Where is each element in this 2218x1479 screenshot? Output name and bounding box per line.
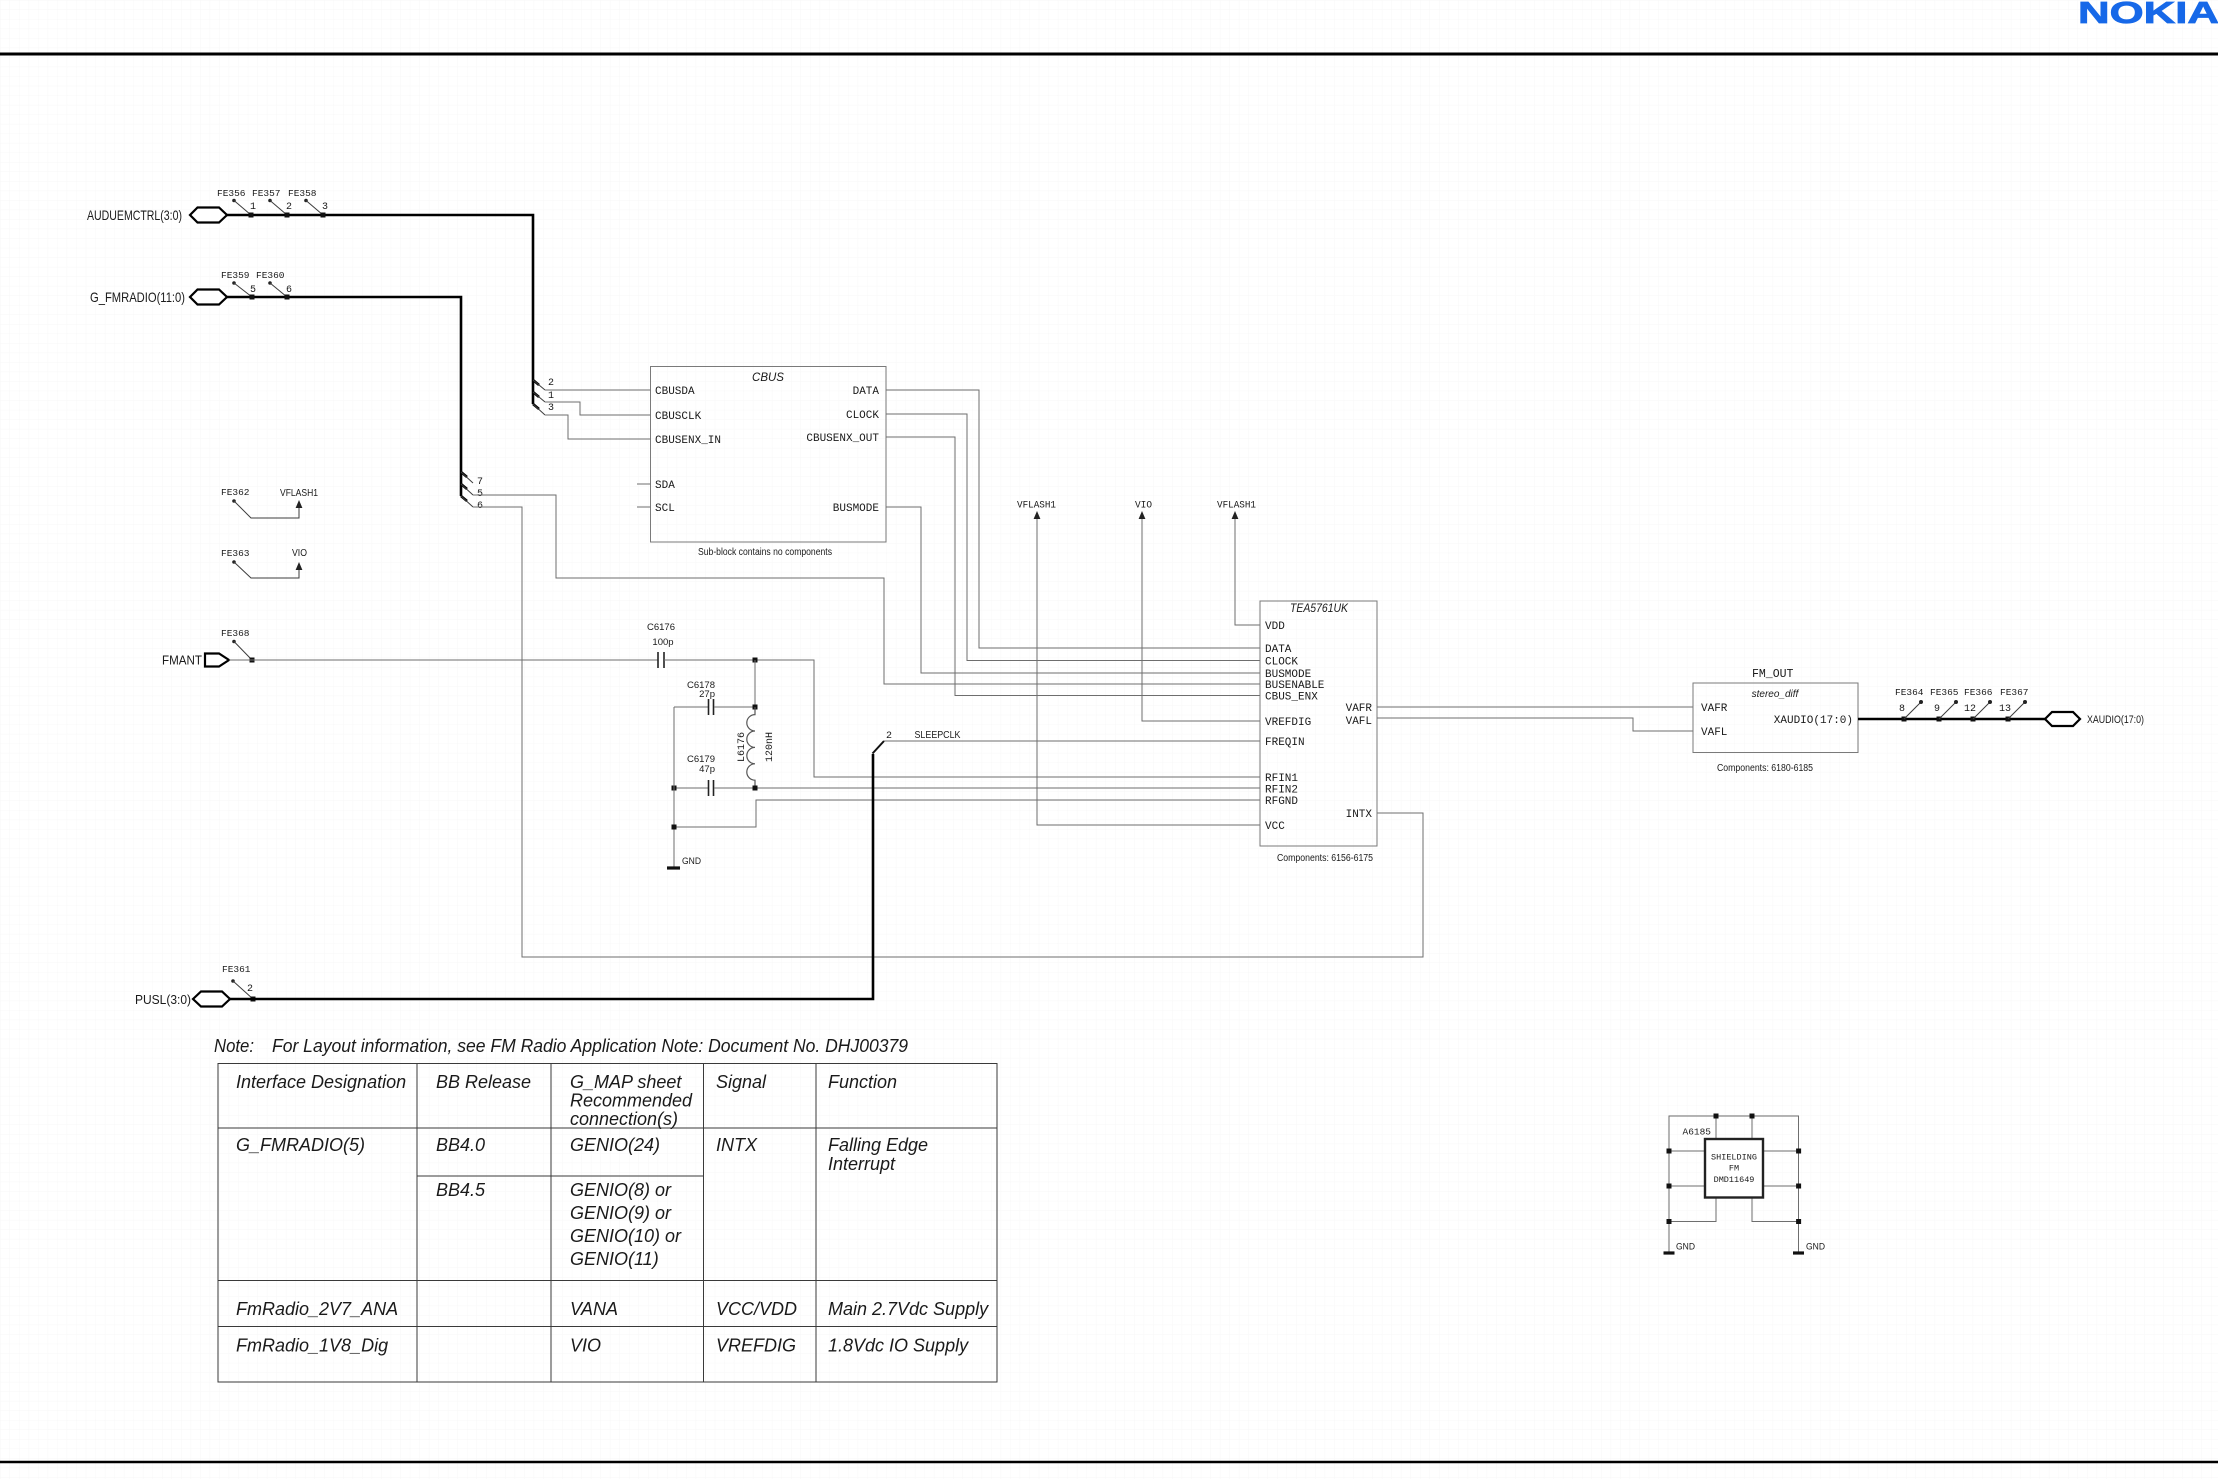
svg-text:SHIELDING: SHIELDING [1711,1153,1757,1163]
svg-text:DMD11649: DMD11649 [1714,1175,1755,1185]
svg-text:connection(s): connection(s) [570,1109,678,1129]
svg-text:VAFL: VAFL [1701,727,1727,739]
svg-text:27p: 27p [699,689,715,700]
svg-text:SCL: SCL [655,503,675,515]
svg-text:G_FMRADIO(5): G_FMRADIO(5) [236,1135,365,1155]
bus XAUDIO [1858,718,2045,721]
wire BUSMODE [886,507,1260,673]
svg-text:Components: 6156-6175: Components: 6156-6175 [1277,853,1373,864]
bus G_FMRADIO [227,297,461,496]
svg-text:1: 1 [548,391,554,402]
svg-text:INTX: INTX [716,1135,758,1155]
bottom horizontal rule [0,1461,2218,1464]
wire tap2 to CBUSDA [533,380,545,390]
svg-text:CLOCK: CLOCK [846,410,879,422]
svg-text:VFLASH1: VFLASH1 [1217,501,1256,512]
svg-text:RFIN2: RFIN2 [1265,785,1298,797]
svg-text:FE356: FE356 [217,188,246,199]
svg-text:For Layout information, see FM: For Layout information, see FM Radio App… [272,1036,908,1056]
svg-text:GND: GND [1676,1242,1695,1253]
svg-text:CBUSCLK: CBUSCLK [655,411,702,423]
bus tap 5 / wire to BUSENABLE [461,484,473,495]
svg-text:SDA: SDA [655,480,675,492]
svg-text:120nH: 120nH [765,732,776,762]
block CBUS [651,367,886,543]
svg-text:FE358: FE358 [288,188,317,199]
svg-text:VDD: VDD [1265,621,1285,633]
svg-text:2: 2 [286,202,292,213]
svg-text:FE367: FE367 [2000,687,2029,698]
svg-text:12: 12 [1964,704,1976,715]
table frame [218,1064,997,1383]
wire SLEEPCLK to FREQIN [884,740,1260,742]
wire C6176 to RFIN1 [664,660,1260,777]
svg-text:FE362: FE362 [221,487,250,498]
svg-text:FE363: FE363 [221,548,250,559]
svg-text:CBUS: CBUS [752,372,784,384]
svg-text:FE361: FE361 [222,964,251,975]
svg-text:5: 5 [250,285,256,296]
svg-text:VAFR: VAFR [1346,703,1373,715]
svg-text:VCC: VCC [1265,821,1285,833]
svg-text:FE364: FE364 [1895,687,1924,698]
bus AUDUEMCTRL [227,215,533,404]
wire CLOCK [886,414,1260,661]
svg-text:FMANT: FMANT [162,654,202,668]
bus tap 2 SLEEPCLK [873,741,885,754]
svg-text:GND: GND [1806,1242,1825,1253]
svg-text:AUDUEMCTRL(3:0): AUDUEMCTRL(3:0) [87,207,182,223]
svg-text:Recommended: Recommended [570,1091,693,1111]
svg-text:FE368: FE368 [221,628,250,639]
svg-text:FmRadio_1V8_Dig: FmRadio_1V8_Dig [236,1336,388,1356]
svg-text:Note:: Note: [214,1036,254,1056]
svg-text:2: 2 [886,731,892,742]
svg-text:VCC/VDD: VCC/VDD [716,1299,797,1319]
svg-text:2: 2 [247,984,253,995]
svg-text:Sub-block contains no componen: Sub-block contains no components [698,547,832,558]
wire CBUSENX_OUT to CBUS_ENX [886,437,1260,696]
svg-text:VAFR: VAFR [1701,703,1728,715]
svg-text:CBUSENX_IN: CBUSENX_IN [655,435,721,447]
svg-text:Interface Designation: Interface Designation [236,1072,406,1092]
svg-text:FE357: FE357 [252,188,281,199]
ground GND left [1664,1251,1675,1254]
svg-text:VFLASH1: VFLASH1 [1017,501,1056,512]
svg-text:CBUSENX_OUT: CBUSENX_OUT [806,433,879,445]
svg-text:G_FMRADIO(11:0): G_FMRADIO(11:0) [90,289,185,305]
svg-text:GENIO(9) or: GENIO(9) or [570,1203,672,1223]
svg-text:VIO: VIO [570,1336,601,1356]
svg-text:BB4.0: BB4.0 [436,1135,485,1155]
wire VAFR [1377,706,1693,708]
svg-text:FmRadio_2V7_ANA: FmRadio_2V7_ANA [236,1299,398,1319]
svg-text:SLEEPCLK: SLEEPCLK [915,730,961,741]
svg-text:2: 2 [548,378,554,389]
bus tap 7 [461,472,473,483]
IC TEA5761UK [1260,601,1377,846]
svg-text:8: 8 [1899,704,1905,715]
wire RFGND [674,800,1260,827]
svg-text:FE365: FE365 [1930,687,1959,698]
svg-text:3: 3 [322,202,328,213]
svg-text:Components: 6180-6185: Components: 6180-6185 [1717,763,1813,774]
svg-text:BUSMODE: BUSMODE [833,503,880,515]
svg-text:BB4.5: BB4.5 [436,1180,486,1200]
inductor L6176 120nH [747,707,755,788]
wire VAFL [1377,718,1693,731]
svg-text:INTX: INTX [1346,809,1373,821]
svg-text:VIO: VIO [1135,501,1152,512]
svg-text:FM: FM [1729,1164,1739,1174]
svg-text:NOKIA: NOKIA [2078,0,2218,30]
svg-text:DATA: DATA [853,386,880,398]
svg-text:C6176: C6176 [647,622,675,633]
svg-text:VFLASH1: VFLASH1 [280,488,318,499]
svg-text:CLOCK: CLOCK [1265,657,1298,669]
svg-text:3: 3 [548,403,554,414]
svg-text:G_MAP sheet: G_MAP sheet [570,1072,682,1092]
svg-text:Signal: Signal [716,1072,767,1092]
shield outer wires [1669,1116,1799,1253]
svg-text:VANA: VANA [570,1299,618,1319]
wire tap3 to CBUSENX_IN [533,404,545,415]
svg-text:L6176: L6176 [737,732,748,762]
svg-text:47p: 47p [699,764,715,775]
svg-text:XAUDIO(17:0): XAUDIO(17:0) [2087,714,2144,726]
bus PUSL [230,754,873,999]
svg-text:Falling Edge: Falling Edge [828,1135,928,1155]
wire node join [754,660,756,707]
svg-text:GENIO(11): GENIO(11) [570,1249,659,1269]
svg-text:1.8Vdc IO Supply: 1.8Vdc IO Supply [828,1336,969,1356]
svg-text:GENIO(24): GENIO(24) [570,1135,660,1155]
svg-text:6: 6 [286,285,292,296]
svg-text:Main 2.7Vdc Supply: Main 2.7Vdc Supply [828,1299,989,1319]
svg-text:100p: 100p [652,637,673,648]
svg-text:7: 7 [477,477,483,488]
ground GND right [1793,1251,1804,1254]
svg-text:9: 9 [1934,704,1940,715]
svg-text:GENIO(8) or: GENIO(8) or [570,1180,672,1200]
svg-text:DATA: DATA [1265,644,1292,656]
wire tap1 to CBUSCLK [533,392,545,402]
svg-text:CBUSDA: CBUSDA [655,386,695,398]
wire left shunt leg [673,707,675,868]
ground GND [667,866,680,869]
svg-text:TEA5761UK: TEA5761UK [1290,603,1349,615]
wire DATA [886,390,1260,648]
wire FMANT to C6176 [229,659,658,661]
svg-text:RFGND: RFGND [1265,796,1298,808]
svg-text:PUSL(3:0): PUSL(3:0) [135,992,191,1007]
shield box SHIELDING FM DMD11649 [1705,1139,1763,1198]
svg-text:Function: Function [828,1072,897,1092]
svg-text:VIO: VIO [292,548,307,559]
svg-text:RFIN1: RFIN1 [1265,773,1298,785]
svg-text:13: 13 [1999,704,2011,715]
svg-text:FREQIN: FREQIN [1265,737,1305,749]
svg-text:VREFDIG: VREFDIG [716,1336,796,1356]
svg-text:BB Release: BB Release [436,1072,531,1092]
bus tap 6 / wire to INTX [461,496,473,507]
svg-text:GND: GND [682,856,701,867]
port XAUDIO(17:0) [2045,712,2080,726]
table text [236,1072,989,1356]
svg-text:CBUS_ENX: CBUS_ENX [1265,692,1318,704]
svg-text:FM_OUT: FM_OUT [1752,668,1794,681]
svg-text:BUSENABLE: BUSENABLE [1265,680,1325,692]
svg-text:Interrupt: Interrupt [828,1154,896,1174]
svg-text:VAFL: VAFL [1346,716,1372,728]
svg-text:XAUDIO(17:0): XAUDIO(17:0) [1774,715,1853,727]
svg-text:VREFDIG: VREFDIG [1265,717,1311,729]
svg-text:A6185: A6185 [1683,1127,1712,1138]
svg-text:1: 1 [250,202,256,213]
svg-text:GENIO(10) or: GENIO(10) or [570,1226,682,1246]
svg-text:FE360: FE360 [256,270,285,281]
svg-text:FE366: FE366 [1964,687,1993,698]
svg-text:stereo_diff: stereo_diff [1752,689,1800,700]
svg-text:FE359: FE359 [221,270,250,281]
wire RFIN2 [755,787,1260,789]
top horizontal rule [0,53,2218,56]
